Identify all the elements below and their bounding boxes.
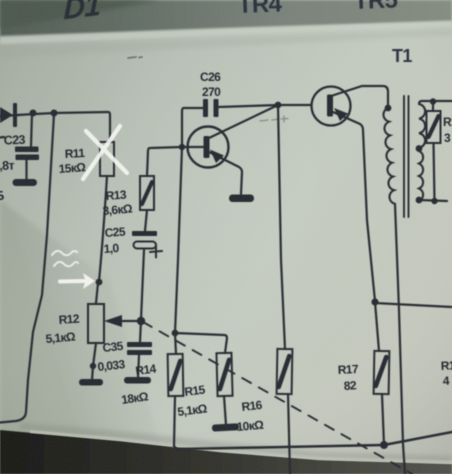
top fold dark band (0, 0, 452, 58)
wire C25 down to wiper node (140, 250, 144, 342)
wire node A down to C23 (31, 113, 32, 147)
dashed coupling line (143, 322, 412, 474)
bottom paper edge + dark band (0, 423, 452, 474)
wire R17 to bus (382, 394, 384, 445)
wire R18 bottom lead (434, 143, 435, 201)
capacitor C35 (127, 342, 152, 355)
node dot primary top (385, 105, 392, 112)
ground bar TR4 emitter (229, 195, 254, 203)
wire node to R12 (96, 283, 98, 303)
transformer core (404, 96, 409, 217)
wire emitter node to right edge (375, 303, 452, 307)
node dot secondary mid (416, 145, 423, 152)
resistor R18 partial (427, 111, 441, 143)
node dot R18 top (430, 98, 436, 104)
wire C23 to ground (25, 160, 27, 179)
node dot R12 gnd (90, 363, 96, 369)
resistor R15 (216, 353, 232, 396)
plus sign C25 (150, 246, 162, 258)
wire secondary top to right (419, 101, 452, 104)
TR4 base bar (204, 136, 210, 158)
capacitor C26 (203, 99, 219, 117)
ground bar R15 (212, 423, 239, 431)
wire primary bottom down across bus (395, 204, 405, 474)
resistor R11 (100, 142, 114, 176)
capacitor C25 polarized (132, 231, 157, 249)
R12 wiper arrow (120, 320, 141, 322)
diode D (detector) (0, 103, 17, 127)
wire collector node down to R16 (278, 105, 285, 349)
potentiometer R12 (88, 304, 104, 343)
ground bar R12 (79, 379, 103, 386)
resistor R17 (374, 351, 390, 394)
resistor R13 (140, 176, 154, 210)
wire C26 left to base node (182, 108, 203, 147)
wire R13 top from base node (147, 147, 182, 176)
transformer secondary winding upper (419, 104, 425, 148)
TR4 base wire (182, 146, 204, 148)
wire R11 bottom to node (99, 176, 107, 281)
wire R15 to ground (224, 396, 226, 425)
TR4 emitter arrow (PNP) (210, 150, 224, 164)
node dot secondary bottom (416, 197, 423, 204)
wire secondary bottom (419, 200, 447, 201)
node dot R18 bottom (431, 198, 437, 204)
resistor R14 (168, 354, 184, 396)
wire base line down to R14 node (175, 147, 182, 333)
tick mark before C23 (0, 136, 4, 139)
capacitor C23 (15, 147, 39, 161)
transistor TR4 (188, 127, 229, 168)
TR5 base bar (327, 95, 333, 117)
wire node down to R17 (375, 302, 379, 351)
node dot A (30, 110, 37, 117)
transistor TR5 (312, 87, 351, 126)
wire C35 to ground (138, 355, 139, 378)
node dot R14 top (172, 330, 179, 337)
wire node B to R11 top (54, 112, 110, 142)
wire R14 node to R14 (175, 333, 176, 354)
TR4 collector wire (209, 105, 278, 138)
white annotation arrow (60, 273, 95, 289)
wire R16 bottom crossing bus (288, 394, 290, 474)
node dot emitter-R17 (371, 298, 378, 305)
white annotation squiggle (52, 251, 78, 266)
wire collector node to TR5 base (278, 104, 311, 106)
TR5 collector wire (331, 86, 388, 107)
wire R14 bottom to bus (174, 396, 175, 446)
crease highlight (0, 21, 452, 44)
TR4 emitter wire (209, 152, 242, 194)
wire node to R15 (175, 333, 227, 353)
node dot R17 bus (380, 441, 388, 449)
speck marks (128, 57, 142, 58)
TR5 emitter arrow (PNP) (334, 108, 348, 121)
white annotation X over R11 (83, 126, 127, 179)
wire R13 to C25 (145, 210, 147, 231)
long wire node B down-left to left edge (0, 114, 54, 423)
ground bar C35 (124, 377, 151, 384)
node dot wiper (137, 317, 145, 325)
wire diode to node (17, 113, 54, 115)
resistor R16 (277, 349, 293, 394)
ground bar under C23 (13, 179, 38, 186)
node dot TR4 collector (275, 102, 282, 109)
TR5 emitter wire (333, 112, 375, 301)
node dot arrow-target (96, 279, 103, 286)
wire R18 top lead (432, 101, 434, 111)
wire input from left edge (0, 115, 20, 116)
transformer secondary winding lower (419, 151, 423, 201)
node dot TR4 base (179, 144, 185, 150)
bottom-left shading (0, 200, 170, 474)
transformer T1 primary winding (383, 108, 395, 204)
node dot B (51, 110, 58, 117)
bottom bus wire (174, 432, 452, 449)
wire C26 right to collector node (219, 105, 279, 107)
wire R12 bottom (92, 343, 96, 380)
